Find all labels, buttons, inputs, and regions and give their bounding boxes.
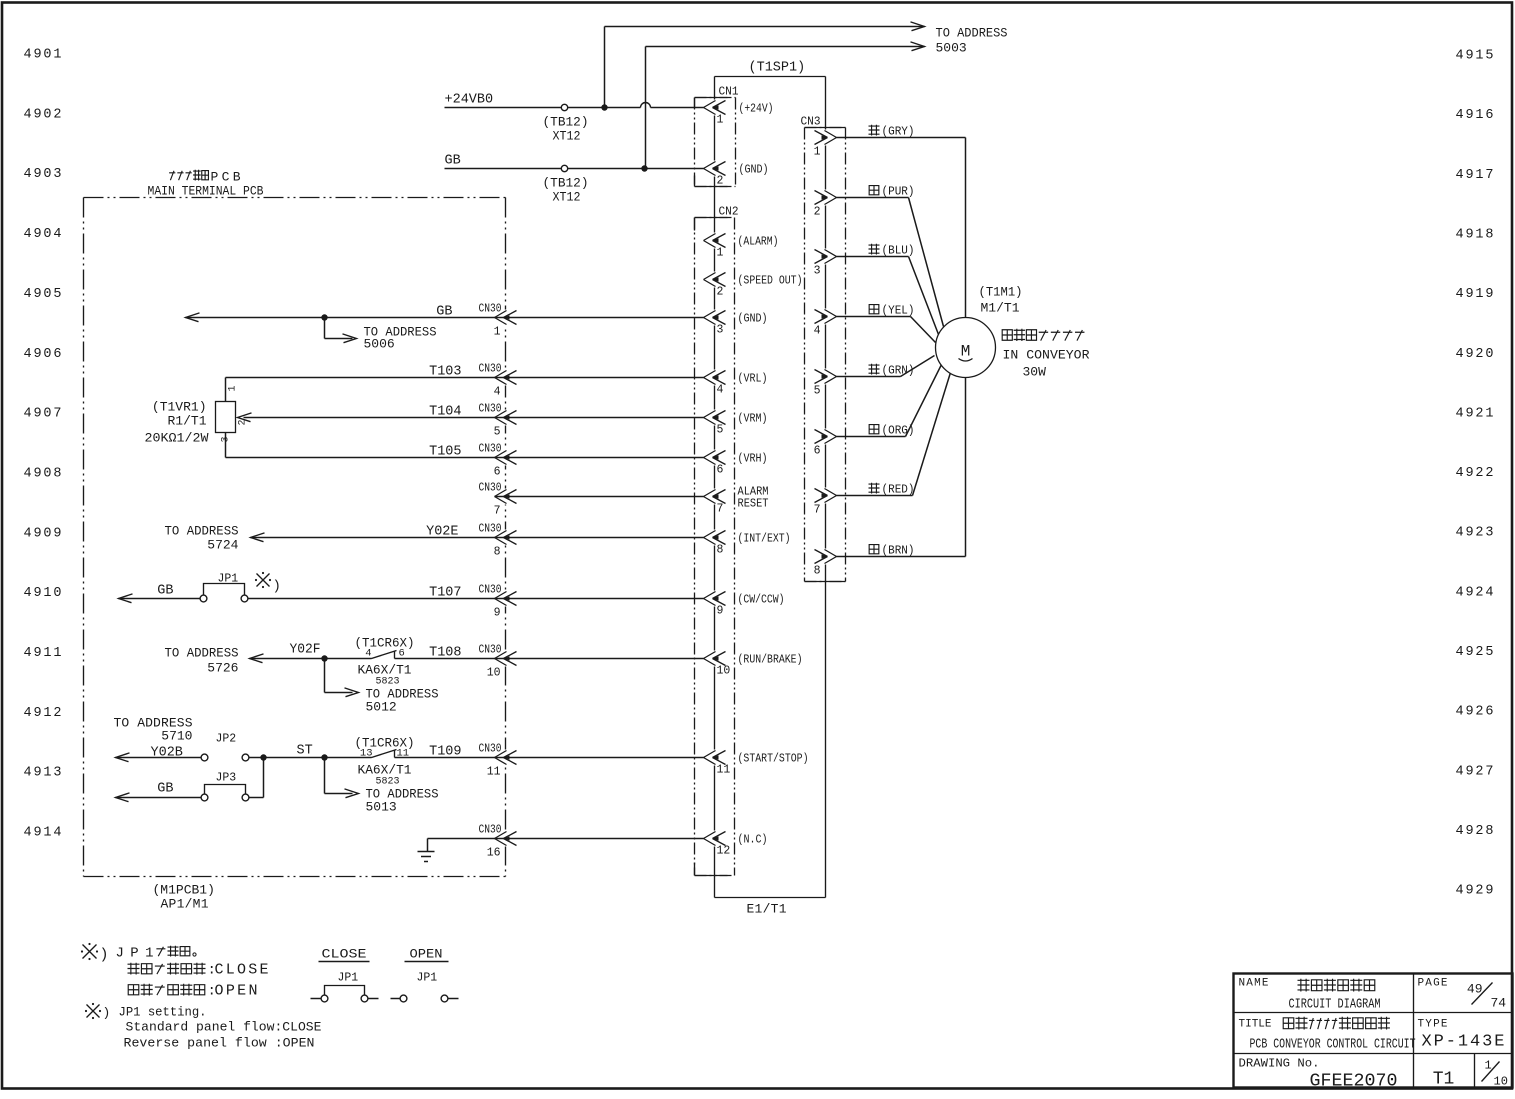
svg-text:T107: T107 [429,586,461,601]
svg-text:1: 1 [814,146,821,159]
svg-text:(CW/CCW): (CW/CCW) [738,593,785,607]
svg-text:1: 1 [494,326,501,339]
svg-text:(TB12): (TB12) [543,176,589,191]
svg-text:8: 8 [717,544,724,557]
svg-text:16: 16 [487,847,501,860]
svg-text:(M1PCB1): (M1PCB1) [153,883,215,898]
svg-text:): ) [103,1006,111,1021]
svg-text:4915: 4915 [1456,49,1494,64]
svg-text:XT12: XT12 [553,129,581,144]
svg-text:T1: T1 [1433,1070,1455,1090]
svg-text:AP1/M1: AP1/M1 [161,897,209,912]
svg-text:6: 6 [717,464,724,477]
svg-text:(GND): (GND) [738,312,768,326]
svg-text:4913: 4913 [24,766,62,781]
svg-text:T109: T109 [429,745,461,760]
svg-text:JP1: JP1 [417,972,438,985]
svg-text:4922: 4922 [1456,466,1494,481]
svg-text:(VRH): (VRH) [738,452,768,466]
svg-text:(T1M1): (T1M1) [979,285,1023,300]
svg-text:CN30: CN30 [479,644,502,657]
svg-text:+24VB0: +24VB0 [445,93,494,108]
svg-text:(START/STOP): (START/STOP) [738,752,809,766]
svg-text:CLOSE: CLOSE [322,947,367,962]
svg-text:CN30: CN30 [479,824,502,837]
svg-text:4906: 4906 [24,347,62,362]
svg-text:5: 5 [494,426,501,439]
svg-text:1: 1 [717,114,724,127]
svg-text:(BLU): (BLU) [882,244,915,258]
svg-text:TO ADDRESS: TO ADDRESS [165,524,239,539]
svg-text:Y02F: Y02F [290,643,321,658]
svg-text:JP2: JP2 [216,733,237,746]
svg-text:(ALARM): (ALARM) [738,235,779,249]
svg-text:6: 6 [494,466,501,479]
svg-text:11: 11 [397,748,410,760]
svg-text:GB: GB [157,782,173,797]
svg-text:12: 12 [717,845,731,858]
svg-text:KA6X/T1: KA6X/T1 [358,663,412,678]
svg-text:GB: GB [436,305,452,320]
svg-text:5006: 5006 [364,337,395,352]
svg-text:3: 3 [221,436,232,442]
svg-text:10: 10 [717,665,731,678]
svg-text:CIRCUIT DIAGRAM: CIRCUIT DIAGRAM [1289,997,1381,1013]
svg-text:4907: 4907 [24,407,62,422]
svg-text:4904: 4904 [24,227,62,242]
svg-text:2: 2 [717,175,724,188]
svg-text:T105: T105 [429,445,461,460]
svg-text:DRAWING No.: DRAWING No. [1239,1057,1320,1071]
svg-text:10: 10 [1494,1075,1508,1089]
svg-text:(RED): (RED) [882,483,915,497]
svg-text:4909: 4909 [24,526,62,541]
svg-text:NAME: NAME [1239,978,1269,990]
svg-text:(GND): (GND) [739,163,769,177]
svg-text:5: 5 [814,385,821,398]
svg-text:4918: 4918 [1456,227,1494,242]
svg-text:IN CONVEYOR: IN CONVEYOR [1003,348,1090,363]
svg-text:20KΩ1/2W: 20KΩ1/2W [145,431,209,446]
svg-text:74: 74 [1491,996,1507,1011]
svg-text:5726: 5726 [207,661,238,676]
svg-text:(+24V): (+24V) [739,102,774,116]
svg-text:(BRN): (BRN) [882,544,915,558]
svg-text:9: 9 [717,605,724,618]
svg-text:5012: 5012 [366,700,397,715]
svg-text:PCB: PCB [211,170,241,185]
svg-text:(T1VR1): (T1VR1) [152,400,207,415]
svg-text:(VRM): (VRM) [738,412,768,426]
svg-text:CN30: CN30 [479,584,502,597]
svg-text:(PUR): (PUR) [882,185,915,199]
svg-text:4: 4 [365,648,371,660]
svg-text:4924: 4924 [1456,585,1494,600]
svg-text:3: 3 [717,324,724,337]
svg-text:5724: 5724 [207,538,238,553]
svg-text:5710: 5710 [161,729,192,744]
svg-text:M: M [961,343,971,361]
svg-text:2: 2 [238,419,249,425]
svg-text:CN1: CN1 [719,86,739,99]
svg-text:XT12: XT12 [553,190,581,205]
svg-text:4: 4 [814,325,821,338]
svg-text:Y02E: Y02E [426,525,458,540]
svg-text:4901: 4901 [24,48,62,63]
svg-text:4: 4 [494,386,501,399]
svg-text:5003: 5003 [936,41,967,56]
svg-text:4923: 4923 [1456,526,1494,541]
svg-text:CN2: CN2 [719,206,739,219]
svg-text:GB: GB [157,584,173,599]
svg-text:4903: 4903 [24,167,62,182]
svg-text:4927: 4927 [1456,764,1494,779]
svg-text:13: 13 [360,748,373,760]
svg-text:30W: 30W [1023,365,1047,380]
svg-text:T108: T108 [429,646,461,661]
svg-text:RESET: RESET [738,497,769,511]
svg-text:1: 1 [228,385,239,391]
svg-text:3: 3 [814,265,821,278]
svg-text:4919: 4919 [1456,287,1494,302]
svg-text:CN30: CN30 [479,523,502,536]
svg-text:4917: 4917 [1456,168,1494,183]
svg-text:(INT/EXT): (INT/EXT) [738,532,791,546]
svg-text:4929: 4929 [1456,884,1494,899]
svg-text:4905: 4905 [24,287,62,302]
svg-text:(GRY): (GRY) [882,125,915,139]
svg-text:Reverse panel flow :OPEN: Reverse panel flow :OPEN [124,1036,315,1051]
svg-text:JP1: JP1 [338,972,359,985]
svg-text:2: 2 [717,286,724,299]
svg-text:4: 4 [717,384,724,397]
svg-text:8: 8 [814,565,821,578]
svg-text:4902: 4902 [24,107,62,122]
svg-text:R1/T1: R1/T1 [167,414,206,429]
svg-text:CN30: CN30 [479,403,502,416]
svg-text:4916: 4916 [1456,108,1494,123]
svg-text:PAGE: PAGE [1418,978,1448,990]
svg-text:6: 6 [814,445,821,458]
svg-text:49: 49 [1467,982,1483,997]
svg-text:TO ADDRESS: TO ADDRESS [165,646,239,661]
svg-text:): ) [273,579,281,595]
svg-text:10: 10 [487,667,501,680]
svg-text:CN30: CN30 [479,743,502,756]
svg-text:(TB12): (TB12) [543,115,589,130]
svg-text:CN30: CN30 [479,363,502,376]
svg-text:9: 9 [494,607,501,620]
svg-text:T103: T103 [429,365,461,380]
svg-text:JP1: JP1 [116,946,154,962]
svg-text:4921: 4921 [1456,406,1494,421]
svg-text:11: 11 [487,766,501,779]
svg-text:OPEN: OPEN [410,947,443,962]
svg-text:4910: 4910 [24,586,62,601]
svg-text:GFEE2070: GFEE2070 [1310,1072,1398,1092]
svg-text:(YEL): (YEL) [882,304,915,318]
svg-text:JP1 setting.: JP1 setting. [119,1005,207,1020]
svg-text:KA6X/T1: KA6X/T1 [358,763,412,778]
svg-text:XP-143E: XP-143E [1422,1033,1505,1052]
svg-text:T104: T104 [429,405,461,420]
svg-text:1: 1 [717,247,724,260]
svg-text:Y02B: Y02B [151,746,183,761]
svg-text:CLOSE: CLOSE [215,962,269,979]
svg-text:4914: 4914 [24,826,62,841]
svg-text:4925: 4925 [1456,645,1494,660]
svg-text:(N.C): (N.C) [738,833,768,847]
svg-text:2: 2 [814,206,821,219]
svg-text:TO ADDRESS: TO ADDRESS [936,26,1008,41]
svg-text:4920: 4920 [1456,347,1494,362]
svg-text:JP3: JP3 [216,772,237,785]
svg-text:(RUN/BRAKE): (RUN/BRAKE) [738,653,803,667]
svg-text:5013: 5013 [366,800,397,815]
svg-text:M1/T1: M1/T1 [981,301,1020,316]
svg-text:TYPE: TYPE [1418,1019,1448,1031]
svg-text:7: 7 [814,504,821,517]
svg-text:4911: 4911 [24,646,62,661]
svg-text:PCB CONVEYOR CONTROL CIRCUIT: PCB CONVEYOR CONTROL CIRCUIT [1250,1038,1416,1053]
svg-text:JP1: JP1 [218,573,239,586]
svg-text:6: 6 [399,648,405,660]
svg-text:(GRN): (GRN) [882,364,915,378]
svg-text:CN30: CN30 [479,303,502,316]
svg-text:GB: GB [445,154,461,169]
svg-text:TITLE: TITLE [1239,1019,1272,1031]
svg-text:4908: 4908 [24,466,62,481]
svg-text:(SPEED OUT): (SPEED OUT) [738,274,803,288]
svg-text:4928: 4928 [1456,824,1494,839]
svg-text:8: 8 [494,546,501,559]
svg-text:(T1CR6X): (T1CR6X) [355,636,415,651]
svg-text:E1/T1: E1/T1 [747,902,787,917]
svg-text:(ORG): (ORG) [882,424,915,438]
svg-text:CN3: CN3 [801,116,821,129]
svg-text:CN30: CN30 [479,443,502,456]
svg-text:5: 5 [717,424,724,437]
svg-text:(T1SP1): (T1SP1) [749,61,806,76]
svg-text:ST: ST [297,744,313,759]
svg-text:7: 7 [717,503,724,516]
svg-text:7: 7 [494,505,501,518]
svg-text:4926: 4926 [1456,705,1494,720]
svg-text:4912: 4912 [24,706,62,721]
svg-text:MAIN TERMINAL PCB: MAIN TERMINAL PCB [148,184,264,199]
svg-text:CN30: CN30 [479,482,502,495]
svg-text:): ) [100,947,109,964]
svg-text:11: 11 [717,764,731,777]
svg-text:Standard panel flow:CLOSE: Standard panel flow:CLOSE [126,1020,322,1035]
svg-text:(VRL): (VRL) [738,372,768,386]
